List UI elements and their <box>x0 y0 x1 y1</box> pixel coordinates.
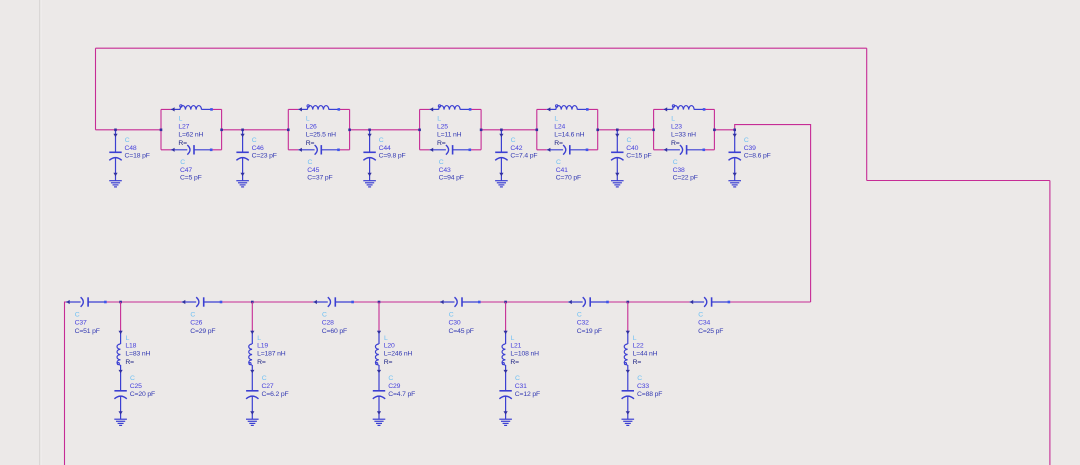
svg-text:C37: C37 <box>75 319 87 326</box>
svg-text:L=187 nH: L=187 nH <box>257 351 286 358</box>
pin dot L25 pin2 <box>469 108 472 111</box>
ground symbol under C48 <box>109 181 122 187</box>
svg-text:L=11 nH: L=11 nH <box>437 132 462 139</box>
svg-text:C48: C48 <box>125 145 137 152</box>
capacitor C43 (inside resonator) <box>430 145 470 155</box>
C44 symbol <box>363 130 375 181</box>
junction dot node at L19 top <box>251 301 254 304</box>
svg-text:C: C <box>556 159 561 166</box>
svg-text:C: C <box>515 375 520 382</box>
wire: top bus segment B (box L27 to box L26) <box>222 129 289 131</box>
junction dot node at L21 top <box>504 301 507 304</box>
svg-text:C=29 pF: C=29 pF <box>190 328 215 335</box>
capacitor C45 (inside resonator) <box>298 145 338 155</box>
parallel resonator L26/C45 <box>287 105 351 182</box>
svg-text:C27: C27 <box>262 383 274 390</box>
svg-text:C: C <box>130 375 135 382</box>
svg-text:C=94 pF: C=94 pF <box>439 175 464 182</box>
svg-text:C=25 pF: C=25 pF <box>698 328 723 335</box>
junction dot node at L18 top <box>119 301 122 304</box>
pin dot C45 pin2 <box>337 149 340 152</box>
svg-text:C=9.8 pF: C=9.8 pF <box>379 153 406 160</box>
ground symbol under C39 <box>728 181 741 187</box>
svg-text:C: C <box>308 159 313 166</box>
wire: top bus segment F (box L23 to node C39) <box>714 129 734 131</box>
svg-text:R=: R= <box>671 140 680 147</box>
capacitor C40 (shunt to ground) <box>611 129 652 187</box>
wire: bottom bus segment A (C37 to node L18) <box>105 301 182 303</box>
wire: branch lead from bus to L19 <box>251 302 253 331</box>
svg-text:C: C <box>75 311 80 318</box>
C39 symbol <box>729 130 741 181</box>
junction dot node at C44 top <box>368 129 371 132</box>
svg-text:C: C <box>577 311 582 318</box>
svg-text:C: C <box>439 159 444 166</box>
svg-text:C=8.6 pF: C=8.6 pF <box>744 153 771 160</box>
capacitor C25 <box>114 374 126 420</box>
C42 symbol <box>495 130 507 181</box>
svg-text:C=51 pF: C=51 pF <box>75 328 100 335</box>
junction dot right node of L25 <box>480 129 483 132</box>
svg-text:L21: L21 <box>510 343 521 350</box>
svg-text:L: L <box>179 115 183 122</box>
C32 symbol <box>568 297 607 307</box>
wire: bottom bus segment F (C34 to output corner) <box>728 301 810 303</box>
junction dot left node of L24 <box>536 129 539 132</box>
svg-text:L: L <box>384 335 388 342</box>
svg-text:R=: R= <box>437 140 446 147</box>
svg-text:L26: L26 <box>306 124 317 131</box>
pin dot C47 pin2 <box>210 149 213 152</box>
wire: right edge drop to port (net N1) <box>1049 181 1051 465</box>
capacitor C42 (shunt to ground) <box>495 129 537 187</box>
svg-text:L25: L25 <box>437 124 448 131</box>
series LC branch L22/C33 <box>622 301 663 426</box>
svg-text:R=: R= <box>384 359 393 366</box>
svg-text:L23: L23 <box>671 124 682 131</box>
junction dot right node of L26 <box>348 129 351 132</box>
junction dot right node of L27 <box>220 129 223 132</box>
inductor L26 <box>298 105 339 112</box>
wire: resonator box outline <box>288 109 349 149</box>
svg-text:L: L <box>633 335 637 342</box>
svg-text:L19: L19 <box>257 343 268 350</box>
svg-text:C41: C41 <box>556 167 568 174</box>
junction dot node at C39 top <box>733 129 736 132</box>
capacitor C26 (series in bottom bus) <box>182 297 223 335</box>
series LC branch L21/C31 <box>499 301 540 426</box>
inductor L22 <box>624 331 630 374</box>
svg-text:L27: L27 <box>178 124 189 131</box>
capacitor C32 (series in bottom bus) <box>568 297 609 335</box>
inductor L20 <box>375 331 381 374</box>
junction dot right node of L24 <box>596 129 599 132</box>
svg-text:C29: C29 <box>388 383 400 390</box>
capacitor C38 (inside resonator) <box>664 145 704 155</box>
C48 symbol <box>109 130 121 181</box>
capacitor C29 <box>373 374 385 420</box>
svg-text:C28: C28 <box>322 319 334 326</box>
svg-text:R=: R= <box>554 140 563 147</box>
C26 symbol <box>182 297 221 307</box>
wire: bottom-left port drop and corner <box>65 302 67 465</box>
svg-text:C: C <box>190 311 195 318</box>
svg-text:R=: R= <box>306 140 315 147</box>
svg-text:C=23 pF: C=23 pF <box>252 153 277 160</box>
svg-text:C: C <box>180 159 185 166</box>
wire: branch lead from bus to L20 <box>378 302 380 331</box>
svg-text:L24: L24 <box>554 124 565 131</box>
svg-text:C: C <box>744 137 749 144</box>
svg-text:L=25.5 nH: L=25.5 nH <box>306 132 336 139</box>
svg-text:C45: C45 <box>307 167 319 174</box>
ground symbol under C33 <box>622 419 635 425</box>
svg-text:L: L <box>671 115 675 122</box>
inductor L25 <box>430 105 471 112</box>
svg-text:C: C <box>627 137 632 144</box>
junction dot node at L22 top <box>627 301 630 304</box>
svg-text:C43: C43 <box>439 167 451 174</box>
svg-text:R=: R= <box>125 359 134 366</box>
pin dot L27 pin2 <box>210 108 213 111</box>
wire: bottom bus segment D (C30 to node L21 to C32) <box>479 301 569 303</box>
capacitor C31 <box>499 374 511 420</box>
ground symbol under C31 <box>499 419 512 425</box>
svg-text:L=83 nH: L=83 nH <box>125 351 150 358</box>
svg-text:L=108 nH: L=108 nH <box>510 351 539 358</box>
pin dot C32 pin2 <box>606 301 609 304</box>
inductor L27 <box>171 105 212 112</box>
svg-text:L: L <box>554 115 558 122</box>
C34 symbol <box>690 297 729 307</box>
svg-text:C34: C34 <box>698 319 710 326</box>
svg-text:L: L <box>437 115 441 122</box>
svg-text:C=4.7 pF: C=4.7 pF <box>388 391 415 398</box>
capacitor C48 (shunt to ground) <box>109 129 150 187</box>
wire: top bus segment E (box L24 to box L23) <box>598 129 654 131</box>
svg-text:L=33 nH: L=33 nH <box>671 132 696 139</box>
parallel resonator L23/C38 <box>652 105 715 182</box>
ground symbol under C44 <box>363 181 376 187</box>
svg-text:C: C <box>511 137 516 144</box>
svg-text:C: C <box>673 159 678 166</box>
svg-text:C=18 pF: C=18 pF <box>125 153 150 160</box>
svg-text:C26: C26 <box>190 319 202 326</box>
wire: top bus segment D (box L25 to box L24) <box>481 129 537 131</box>
pin dot C38 pin2 <box>703 149 706 152</box>
svg-text:C25: C25 <box>130 383 142 390</box>
ground symbol under C46 <box>236 181 249 187</box>
capacitor C28 (series in bottom bus) <box>313 297 354 335</box>
C37 symbol <box>66 297 105 307</box>
junction dot right node of L23 <box>713 129 716 132</box>
pin dot L24 pin2 <box>586 108 589 111</box>
capacitor C34 (series in bottom bus) <box>690 297 731 335</box>
capacitor C46 (shunt to ground) <box>236 129 277 187</box>
inductor L19 <box>249 331 255 374</box>
capacitor C27 <box>246 374 258 420</box>
C46 symbol <box>236 130 248 181</box>
parallel resonator L25/C43 <box>418 105 482 182</box>
svg-text:C38: C38 <box>673 167 685 174</box>
inductor L21 <box>502 331 508 374</box>
svg-text:L: L <box>306 115 310 122</box>
ground symbol under C25 <box>114 419 127 425</box>
svg-text:L=14.6 nH: L=14.6 nH <box>554 132 584 139</box>
wire: branch lead from bus to L18 <box>120 302 122 331</box>
wire: top horizontal feed (net N1) <box>96 47 867 49</box>
pin dot L26 pin2 <box>338 108 341 111</box>
svg-text:C=88 pF: C=88 pF <box>637 391 662 398</box>
wire: resonator box outline <box>161 109 222 149</box>
svg-text:C=7.4 pF: C=7.4 pF <box>510 153 537 160</box>
capacitor C39 (shunt to ground) <box>728 129 770 187</box>
wire: resonator box outline <box>420 109 482 149</box>
capacitor C33 <box>622 374 634 420</box>
junction dot node at C46 top <box>241 129 244 132</box>
parallel resonator L24/C41 <box>536 105 600 182</box>
svg-text:C: C <box>262 375 267 382</box>
ground symbol under C29 <box>373 419 386 425</box>
svg-text:L=62 nH: L=62 nH <box>178 132 203 139</box>
junction dot node at L20 top <box>378 301 381 304</box>
series LC branch L20/C29 <box>373 301 415 426</box>
svg-text:C=15 pF: C=15 pF <box>626 153 651 160</box>
svg-text:L: L <box>257 335 261 342</box>
ground symbol under C42 <box>495 181 508 187</box>
svg-text:C=19 pF: C=19 pF <box>577 328 602 335</box>
svg-text:L18: L18 <box>125 343 136 350</box>
series LC branch L19/C27 <box>246 301 288 426</box>
inductor L24 <box>547 105 588 112</box>
wire: bottom bus segment B (C26 to node L19 to C28) <box>220 301 313 303</box>
ground symbol under C40 <box>611 181 624 187</box>
svg-text:L20: L20 <box>384 343 395 350</box>
svg-text:C30: C30 <box>449 319 461 326</box>
capacitor C37 (series in bottom bus) <box>66 297 107 335</box>
capacitor C47 (inside resonator) <box>171 145 211 155</box>
svg-text:C=12 pF: C=12 pF <box>515 391 540 398</box>
pin dot L23 pin2 <box>703 108 706 111</box>
capacitor C30 (series in bottom bus) <box>440 297 481 335</box>
wire: branch lead from bus to L21 <box>505 302 507 331</box>
svg-text:L: L <box>511 335 515 342</box>
wire: right vertical drop (net N1) <box>866 48 868 180</box>
svg-text:C=22 pF: C=22 pF <box>673 175 698 182</box>
svg-text:C: C <box>698 311 703 318</box>
pin dot C28 pin2 <box>351 301 354 304</box>
wire: bottom bus segment C (C28 to node L20 to C30) <box>352 301 440 303</box>
wire: resonator box outline <box>654 109 715 149</box>
wire: branch lead from bus to L22 <box>627 302 629 331</box>
svg-text:C: C <box>637 375 642 382</box>
svg-text:L=44 nH: L=44 nH <box>633 351 658 358</box>
C40 symbol <box>611 130 623 181</box>
capacitor C44 (shunt to ground) <box>363 129 405 187</box>
svg-text:C: C <box>322 311 327 318</box>
inductor L23 <box>664 105 705 112</box>
svg-text:C=70 pF: C=70 pF <box>556 175 581 182</box>
pin dot C34 pin2 <box>728 301 731 304</box>
C30 symbol <box>440 297 479 307</box>
svg-text:R=: R= <box>633 359 642 366</box>
junction dot left node of L26 <box>287 129 290 132</box>
junction dot node at C42 top <box>500 129 503 132</box>
svg-text:C=20 pF: C=20 pF <box>130 391 155 398</box>
parallel resonator L27/C47 <box>160 105 223 182</box>
svg-text:L: L <box>126 335 130 342</box>
wire: bottom bus segment E (C32 to node L22 to C34) <box>607 301 690 303</box>
pin dot C30 pin2 <box>478 301 481 304</box>
svg-text:L22: L22 <box>633 343 644 350</box>
C28 symbol <box>313 297 352 307</box>
junction dot left node of L27 <box>160 129 163 132</box>
svg-text:C=5 pF: C=5 pF <box>180 175 202 182</box>
svg-text:C44: C44 <box>379 145 391 152</box>
svg-text:C: C <box>449 311 454 318</box>
wire: lower horizontal run (net N1) <box>867 180 1050 182</box>
svg-text:C46: C46 <box>252 145 264 152</box>
svg-text:R=: R= <box>510 359 519 366</box>
svg-text:C33: C33 <box>637 383 649 390</box>
svg-text:C=37 pF: C=37 pF <box>307 175 332 182</box>
wire: top bus segment A (input to box L27) <box>96 129 162 131</box>
pin dot C41 pin2 <box>586 149 589 152</box>
svg-text:C32: C32 <box>577 319 589 326</box>
svg-text:C=45 pF: C=45 pF <box>449 328 474 335</box>
wire: top filter output jog down to bottom bus <box>735 125 811 302</box>
series LC branch L18/C25 <box>114 301 155 426</box>
svg-text:L=246 nH: L=246 nH <box>384 351 413 358</box>
ground symbol under C27 <box>246 419 259 425</box>
svg-text:C42: C42 <box>510 145 522 152</box>
capacitor C41 (inside resonator) <box>547 145 587 155</box>
wire: input riser (net N1, left vertical) <box>95 48 97 130</box>
pin dot C26 pin2 <box>220 301 223 304</box>
svg-text:C: C <box>379 137 384 144</box>
svg-text:C=60 pF: C=60 pF <box>322 328 347 335</box>
svg-text:R=: R= <box>257 359 266 366</box>
pin dot C43 pin2 <box>469 149 472 152</box>
pin dot C37 pin2 <box>104 301 107 304</box>
junction dot left node of L23 <box>652 129 655 132</box>
junction dot left node of L25 <box>418 129 421 132</box>
junction dot node at C40 top <box>616 129 619 132</box>
svg-text:C31: C31 <box>515 383 527 390</box>
svg-text:C: C <box>252 137 257 144</box>
wire: top bus segment C (box L26 to box L25) <box>350 129 420 131</box>
svg-text:R=: R= <box>178 140 187 147</box>
svg-text:C: C <box>125 137 130 144</box>
svg-text:C40: C40 <box>626 145 638 152</box>
svg-text:C47: C47 <box>180 167 192 174</box>
wire: resonator box outline <box>537 109 598 149</box>
svg-text:C=6.2 pF: C=6.2 pF <box>262 391 289 398</box>
junction dot node at C48 top <box>114 129 117 132</box>
inductor L18 <box>117 331 123 374</box>
svg-text:C39: C39 <box>744 145 756 152</box>
svg-text:C: C <box>388 375 393 382</box>
canvas border line <box>39 0 41 465</box>
